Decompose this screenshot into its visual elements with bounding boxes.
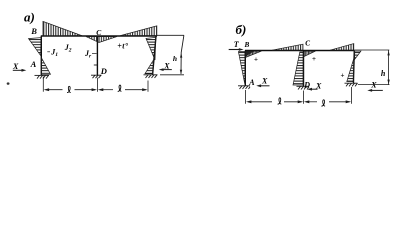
svg-text:+t°: +t° [117,42,129,51]
moment diagram on beam, left bay (above beam) [43,21,82,36]
moment diagram left column, bottom (inside) [41,58,50,75]
moment diagram right column (b), top outside [355,51,361,59]
span l (b right bay) [304,100,309,103]
beam BC (top girder) [41,35,157,37]
beam (b) [245,50,354,52]
svg-text:X: X [12,62,19,71]
moment diagram on beam near C (below beam) [86,37,117,43]
dimension line (a) with extensions [42,77,44,92]
column right [153,36,156,75]
svg-text:T: T [234,40,240,49]
bottom extension line (b) [358,84,390,86]
moment diagram right column, top (inside) [146,37,156,60]
support at D [91,75,102,78]
column at A (b) [244,51,246,86]
column at D (b) [303,51,305,87]
moment diagram right column, bottom [145,60,153,74]
svg-text:B: B [244,41,250,49]
moment diagram right of C (below beam) [304,51,315,56]
svg-text:h: h [381,69,386,78]
right column (b) [352,51,355,84]
svg-text:б): б) [236,22,247,37]
support at right base [144,75,158,78]
moment diagram beam right bay rising to corner (above beam) [330,44,354,51]
svg-text:a): a) [24,10,35,25]
vertical dimension h (right of frame b) [388,50,390,85]
support at A (b) [238,86,250,89]
svg-text:D: D [303,80,310,89]
svg-text:D: D [100,66,107,76]
moment diagram beam left bay rising to C (above beam) [272,44,303,50]
dimension line (b) with extensions [245,90,247,104]
support at D (b) [297,86,310,89]
hinge tick on middle column [94,64,98,66]
scan speck [7,82,10,84]
column AB (left) [40,36,42,75]
beam extension line [354,49,389,51]
svg-text:J2: J2 [64,43,72,54]
label J1 with leader dash [47,51,50,53]
svg-text:B: B [30,26,37,36]
svg-text:J1: J1 [50,48,58,59]
moment diagram left column (b), outside [238,52,245,85]
svg-text:+: + [312,55,316,63]
svg-text:+: + [254,56,258,64]
moment diagram left column, top (outside) [29,38,42,56]
moment diagram on beam, right bay (above beam) [120,26,157,36]
moment diagram at B corner (below beam, dense) [246,51,262,57]
span l (left bay) [44,88,49,91]
svg-text:Jr: Jr [84,49,92,60]
svg-text:+: + [341,72,345,80]
svg-text:A: A [248,78,255,87]
svg-text:X: X [163,61,170,70]
vertical dimension h (right of frame a) [181,35,184,74]
column CD (middle) [96,36,98,75]
moment diagram middle column (b), left side [293,52,303,85]
span l (b left bay) [246,100,251,103]
bottom extension line [160,74,184,76]
moment diagram right column (b), bottom inside [347,59,354,82]
svg-text:A: A [30,59,37,69]
svg-text:h: h [173,54,177,63]
svg-text:X: X [261,77,268,86]
span l (right bay) [98,88,103,91]
support at right base (b) [345,83,358,86]
svg-text:C: C [305,40,310,48]
support at A [35,75,50,78]
beam extension line to dimension [157,34,184,36]
